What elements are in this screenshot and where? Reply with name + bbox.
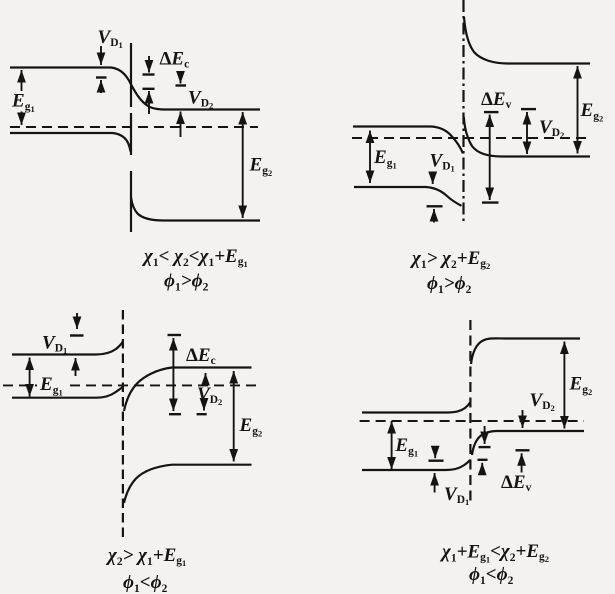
conduction band material1 (top-right): [353, 127, 463, 154]
tick VD2 (bottom-left): [197, 413, 207, 415]
junction line segment c (top-left): [130, 171, 132, 232]
valence band material1 (bottom-right): [362, 460, 470, 470]
arrow VD2 down (bottom-right): [522, 410, 524, 428]
arrow VD1 down (top-left): [100, 46, 102, 65]
arrow Eg1 double (bottom-left): [29, 358, 31, 397]
valence band material1 (bottom-left): [12, 387, 123, 398]
arrow VD1 down (bottom-right): [434, 447, 436, 458]
tick VD1 (bottom-left): [70, 334, 84, 336]
valence band material2 (bottom-right): [472, 431, 584, 455]
arrow junction up (bottom-right): [481, 463, 483, 474]
arrow Eg2 double (bottom-left): [233, 371, 235, 462]
tick VD2 (top-left): [176, 84, 187, 86]
arrow VD2 up (bottom-left): [205, 373, 207, 385]
arrow VD1 down (top-right): [432, 172, 434, 185]
tick junction lower (bottom-right): [478, 459, 488, 461]
tick VD1 (top-right): [427, 205, 443, 207]
tick dEv (bottom-right): [516, 449, 530, 451]
arrow VD2 down to tick (top-left): [180, 71, 182, 84]
conduction band material2 (bottom-right): [471, 338, 580, 364]
tick dEc bottom (bottom-left): [169, 413, 181, 415]
valence band material2 (bottom-left): [124, 465, 252, 503]
arrow Eg1 double (bottom-right): [391, 421, 393, 470]
tick dEc top (bottom-left): [168, 334, 182, 336]
tick dEv bottom (top-right): [482, 201, 499, 203]
arrow dEc down (top-left): [148, 56, 150, 73]
arrow dEv up (bottom-right): [521, 453, 523, 472]
arrow Eg1 up (top-left): [21, 70, 23, 91]
arrow Eg1 double (top-right): [369, 131, 371, 184]
tick VD1 (top-left): [96, 76, 107, 78]
conduction band material2 (top-right): [464, 17, 590, 64]
conduction band material1 (bottom-right): [362, 403, 470, 413]
junction dash-dot line (top-right): [462, 0, 464, 222]
Fermi level dashed (top-right): [352, 137, 590, 139]
tick VD1 (bottom-right): [429, 460, 444, 462]
tick dEc top (top-left): [143, 73, 155, 75]
arrow VD1 up (top-right): [433, 209, 435, 223]
tick dEc bottom (top-left): [143, 88, 155, 90]
Fermi level dashed left part (bottom-left): [3, 384, 37, 386]
junction dashed line (bottom-right): [469, 320, 471, 503]
arrow Eg2 double (top-right): [577, 66, 579, 154]
arrow Eg2 double (top-left): [242, 112, 244, 218]
arrow VD2 up (top-left): [180, 112, 182, 138]
tick VD2 (top-right): [521, 108, 536, 110]
conduction band material1 (bottom-left): [12, 342, 123, 355]
arrow Eg1 down (top-left): [21, 112, 23, 126]
valence band material1 (top-left): [10, 133, 131, 152]
conduction band material2 (bottom-left): [124, 368, 252, 412]
junction line segment a (top-left): [130, 43, 132, 107]
valence band material2 (top-left): [131, 198, 260, 221]
junction line segment b (top-left): [130, 113, 132, 155]
tick junction upper (bottom-right): [479, 446, 491, 448]
Fermi level dashed (top-left): [10, 126, 258, 128]
valence band material1 (top-right): [354, 187, 462, 206]
svg-text:ϕ1>ϕ2: ϕ1>ϕ2: [427, 273, 472, 296]
junction dashed line (bottom-left): [122, 310, 124, 542]
arrow VD2 double (top-right): [526, 112, 528, 154]
Fermi level dashed (bottom-right): [360, 420, 584, 422]
arrow dEc up (top-left): [148, 91, 150, 114]
svg-text:ϕ1<ϕ2: ϕ1<ϕ2: [469, 564, 514, 587]
arrow VD1 up (bottom-right): [434, 473, 436, 493]
arrow Eg2 double (bottom-right): [563, 342, 565, 429]
conduction band material1+2 curve (top-left): [10, 68, 260, 110]
Fermi level dashed right part (bottom-left): [70, 384, 258, 386]
arrow dEc double (bottom-left): [172, 338, 174, 411]
arrow dEv double (top-right): [489, 115, 491, 201]
valence band material2 (top-right): [464, 117, 590, 157]
svg-text:ϕ1<ϕ2: ϕ1<ϕ2: [123, 572, 168, 594]
arrow VD2 down (bottom-left): [203, 402, 205, 411]
arrow junction down (bottom-right): [484, 426, 486, 444]
arrow VD1 up (bottom-left): [75, 358, 77, 376]
arrow VD1 up (top-left): [100, 80, 102, 93]
tick dEv top (top-right): [484, 111, 499, 113]
arrow VD1 down (bottom-left): [76, 313, 78, 329]
svg-text:ϕ1>ϕ2: ϕ1>ϕ2: [164, 271, 209, 294]
